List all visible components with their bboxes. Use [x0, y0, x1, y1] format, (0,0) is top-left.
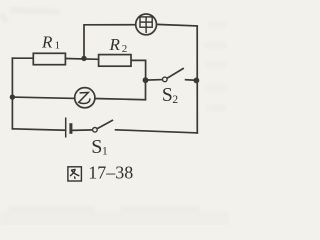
svg-text:2: 2: [122, 43, 128, 55]
svg-text:2: 2: [172, 94, 178, 106]
svg-text:S: S: [91, 136, 102, 158]
svg-text:S: S: [162, 85, 173, 106]
svg-text:1: 1: [102, 145, 108, 157]
svg-text:R: R: [109, 35, 121, 54]
svg-text:17–38: 17–38: [88, 163, 133, 183]
svg-text:R: R: [41, 32, 53, 51]
svg-text:1: 1: [55, 40, 61, 52]
